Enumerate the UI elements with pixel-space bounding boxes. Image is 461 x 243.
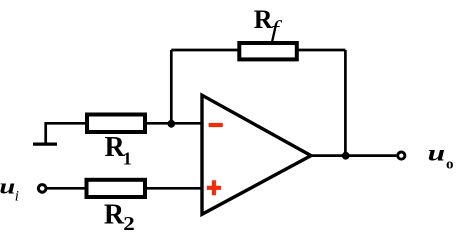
non-inverting input marker (plus)	[207, 180, 221, 195]
svg-text:2: 2	[123, 213, 135, 235]
svg-text:o: o	[446, 157, 454, 173]
wire R1 to op-amp inverting input	[145, 122, 202, 125]
svg-text:1: 1	[123, 148, 132, 168]
ground	[33, 143, 57, 146]
inverting input marker (minus)	[209, 123, 223, 127]
svg-text:u: u	[428, 141, 446, 166]
resistor Rf	[239, 43, 296, 59]
resistor R1	[87, 115, 145, 133]
wire inverting node up to feedback	[170, 50, 173, 124]
svg-text:R: R	[104, 199, 125, 230]
terminal u_o (open circle)	[398, 152, 405, 159]
wire u_i to R2	[47, 187, 88, 190]
wire feedback left to Rf	[171, 49, 239, 52]
resistor R2	[87, 180, 146, 197]
wire ground riser to R1	[46, 123, 87, 144]
svg-text:i: i	[15, 189, 19, 205]
junction dot inverting node	[167, 120, 175, 128]
wire right corner down to output node	[344, 50, 347, 156]
wire Rf to right corner	[297, 49, 345, 52]
junction dot output node	[342, 152, 350, 160]
wire op-amp output	[311, 154, 396, 157]
op-amp U1	[202, 95, 311, 214]
svg-text:u: u	[0, 173, 15, 198]
svg-text:f: f	[271, 16, 284, 41]
wire R2 to op-amp non-inverting input	[145, 187, 202, 190]
terminal u_i (open circle)	[38, 185, 46, 193]
